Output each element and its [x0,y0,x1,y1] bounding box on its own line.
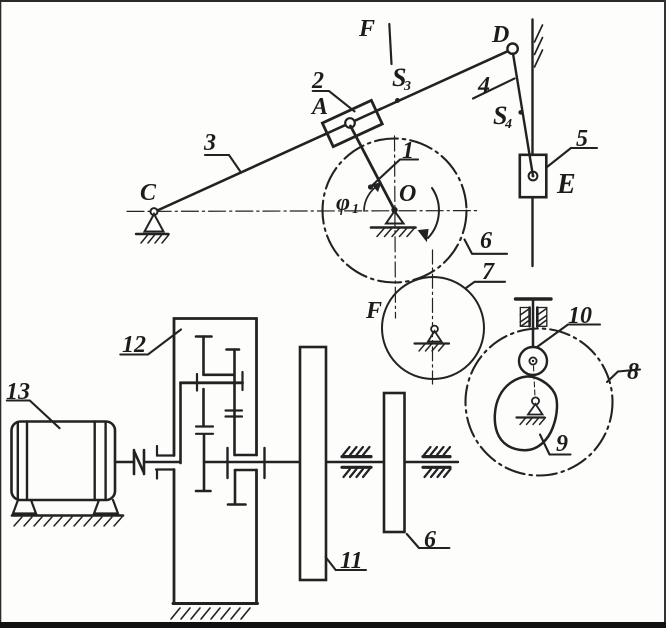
label 7 [466,282,505,288]
svg-text:9: 9 [556,431,568,457]
svg-text:11: 11 [340,548,363,574]
svg-text:E: E [556,169,576,200]
label 2 [313,91,355,111]
gear 11 (large wheel) [300,347,326,580]
gear 6 (pinion wheel) [384,393,405,532]
label 10 [537,325,600,348]
label 4 [473,79,515,99]
intermediate shaft bar [181,381,243,384]
cam pivot [517,397,546,424]
label 12 [120,330,181,355]
link 3 segment through slider A [324,109,381,135]
riser / input gear line [179,383,182,463]
output shaft bearing ticks [226,448,228,478]
roller-cam centerline [534,366,536,397]
svg-text:12: 12 [122,332,146,358]
follower guide [516,299,552,362]
svg-text:4: 4 [477,73,490,99]
pin A [345,118,355,128]
label 8 [607,370,640,383]
label 1 [371,160,418,187]
svg-text:3: 3 [203,130,216,156]
pin D [507,44,517,54]
phi1 angle arc with arrow [364,185,380,212]
svg-text:1: 1 [352,202,359,217]
svg-text:D: D [491,22,509,48]
pivot in circle 7 [415,326,450,351]
slider block E (5) [520,155,547,197]
link 3 (rod C-D) [154,49,513,212]
right bearing tick [241,372,243,390]
guide hatching [535,25,543,67]
svg-text:7: 7 [482,259,495,285]
svg-text:4: 4 [504,117,512,132]
rotation direction arrow on circle 6 [428,188,439,238]
svg-text:O: O [399,181,416,207]
shaft bearing (left pads) [342,447,371,477]
svg-text:6: 6 [424,527,436,553]
output shaft [204,461,458,463]
slider block A (2) [322,100,382,146]
gear stub 1 (top) [196,337,212,375]
crank circle 6 (dash-dot) [323,139,467,283]
circle 7 vertical centerline [432,250,434,384]
motor ground [12,514,123,517]
left bearing tick [196,374,198,391]
crank 1 (link O-A) [351,126,395,210]
gear block bar [204,373,234,376]
label 6 [465,240,508,254]
gearbox ground hatching [171,608,250,619]
input bearing brackets [156,446,174,479]
gearbox 12 housing [173,319,258,604]
label 5 [547,148,597,167]
pivot O [371,211,416,237]
S3 mass dot [395,98,400,103]
svg-text:2: 2 [311,68,324,94]
vertical centerline of crank circle [395,136,396,318]
motor shaft [115,461,133,463]
input shaft [145,461,181,463]
motor 13 [12,422,124,527]
joint dot at O [391,207,397,213]
svg-text:8: 8 [627,359,639,385]
svg-text:5: 5 [576,126,588,152]
label 13 [7,401,60,429]
link 4 (D-E) [513,54,533,177]
svg-text:F: F [365,298,382,324]
vertical slider guide at D-E [531,20,533,267]
label 3 [205,155,240,171]
svg-text:φ: φ [336,190,350,216]
svg-text:F: F [358,16,375,42]
label 9 [540,435,571,455]
pin E [529,172,538,181]
S4 mass dot [518,110,523,115]
svg-text:3: 3 [403,79,411,94]
svg-text:1: 1 [402,138,414,164]
svg-text:6: 6 [480,228,492,254]
label 6b [407,534,450,548]
svg-text:10: 10 [568,303,592,329]
gear stub 2 [226,350,243,456]
coupling [134,450,144,474]
svg-text:13: 13 [6,379,30,405]
svg-text:C: C [140,180,157,206]
gear stub 3 (on input axis) [196,389,213,491]
label 11 [326,557,366,570]
roller 10 [519,347,547,375]
pivot C [136,208,169,243]
cam circle 8 (dash-dot) [466,329,613,476]
motor feet [13,500,36,514]
right wall shaft cutout [228,455,257,505]
svg-text:A: A [310,94,328,120]
F trajectory tick (top) [389,24,391,64]
circle 7 (gear circle, solid) [382,277,484,379]
shaft bearing (right pads) [423,447,451,477]
horizontal centerline through C and O [127,210,478,213]
label leaders [7,79,640,571]
cam 9 (egg profile) [495,376,557,450]
